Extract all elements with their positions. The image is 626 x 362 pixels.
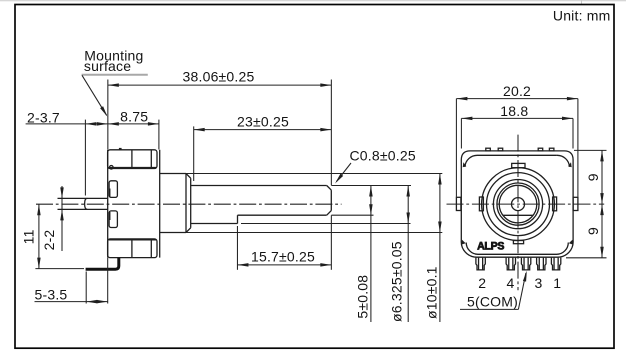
svg-text:5(COM): 5(COM)	[467, 294, 518, 310]
svg-text:4: 4	[507, 275, 515, 291]
svg-text:2-3.7: 2-3.7	[27, 109, 60, 125]
svg-text:15.7±0.25: 15.7±0.25	[251, 248, 315, 264]
svg-text:ø6.325±0.05: ø6.325±0.05	[389, 241, 405, 322]
svg-text:9: 9	[585, 173, 601, 181]
svg-text:1: 1	[553, 275, 561, 291]
svg-text:5-3.5: 5-3.5	[35, 286, 68, 302]
svg-text:Unit: mm: Unit: mm	[553, 7, 611, 23]
svg-text:surface: surface	[84, 58, 131, 74]
svg-text:C0.8±0.25: C0.8±0.25	[350, 147, 416, 163]
svg-text:2: 2	[478, 275, 486, 291]
svg-text:3: 3	[535, 275, 543, 291]
svg-text:2-2: 2-2	[41, 230, 57, 251]
svg-text:18.8: 18.8	[500, 103, 528, 119]
svg-text:9: 9	[585, 227, 601, 235]
svg-text:20.2: 20.2	[503, 83, 531, 99]
svg-text:11: 11	[21, 229, 37, 244]
svg-text:8.75: 8.75	[120, 108, 148, 124]
svg-text:5±0.08: 5±0.08	[354, 275, 370, 319]
svg-text:ALPS: ALPS	[477, 241, 504, 253]
svg-text:38.06±0.25: 38.06±0.25	[183, 69, 255, 85]
svg-text:ø10±0.1: ø10±0.1	[423, 266, 439, 319]
svg-text:23±0.25: 23±0.25	[237, 113, 289, 129]
